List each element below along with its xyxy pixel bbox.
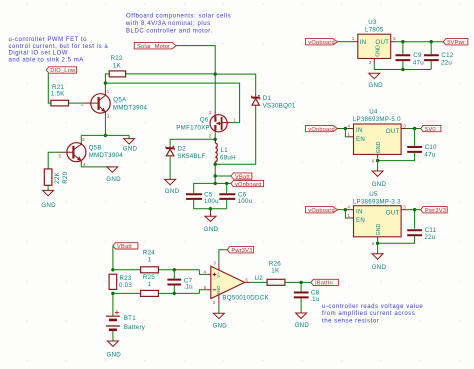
svg-text:1: 1 bbox=[347, 132, 350, 137]
junction U5 EN tie bbox=[344, 208, 347, 211]
wire U5 OUT to Pwr3V3 bbox=[401, 209, 407, 211]
global label Pwr3V3 right bbox=[421, 207, 448, 214]
svg-text:U3: U3 bbox=[368, 19, 377, 26]
wire DIO_Low to R21 bbox=[48, 73, 51, 103]
wire R22 right to solar rail bbox=[126, 73, 215, 75]
svg-text:3: 3 bbox=[209, 110, 212, 115]
wire Pwr3V3 to op-amp V+ bbox=[219, 250, 227, 263]
svg-text:1: 1 bbox=[107, 89, 110, 94]
svg-text:5V0: 5V0 bbox=[425, 127, 436, 133]
wire Solar_Motor to rail bbox=[176, 46, 215, 75]
junction R22-Q5A collector bbox=[104, 81, 107, 84]
svg-text:3: 3 bbox=[82, 137, 85, 142]
wire source node to D2 bbox=[170, 139, 215, 147]
svg-text:SK54BLF: SK54BLF bbox=[177, 153, 205, 160]
svg-text:100u: 100u bbox=[204, 198, 219, 205]
svg-text:Solar_Motor: Solar_Motor bbox=[137, 44, 170, 50]
svg-text:6: 6 bbox=[372, 241, 375, 246]
resistor R26 bbox=[267, 261, 285, 286]
svg-text:GND: GND bbox=[376, 141, 382, 153]
global label Solar_Motor bbox=[134, 42, 176, 49]
wire U3 GND pin bbox=[373, 59, 375, 64]
svg-text:VS30BQ01: VS30BQ01 bbox=[263, 103, 296, 110]
svg-text:C11: C11 bbox=[425, 227, 437, 234]
svg-text:5: 5 bbox=[204, 285, 207, 290]
svg-text:2: 2 bbox=[369, 60, 372, 65]
svg-text:6: 6 bbox=[245, 277, 248, 282]
wire op-amp V- to ground bbox=[218, 304, 220, 313]
svg-text:1: 1 bbox=[352, 36, 355, 41]
ground below R20 bbox=[41, 190, 56, 209]
wire Q5B emitter to ground bbox=[81, 164, 112, 167]
svg-text:GND: GND bbox=[107, 352, 122, 359]
wire rail to Q6 drain bbox=[214, 74, 216, 111]
wire U5 GND to ground bbox=[377, 243, 379, 254]
svg-text:Pwr3V3: Pwr3V3 bbox=[231, 248, 252, 254]
svg-text:R25: R25 bbox=[143, 274, 155, 281]
svg-text:vOnboard: vOnboard bbox=[235, 182, 262, 188]
svg-text:Offboard components: solar ce: Offboard components: solar cells bbox=[126, 14, 231, 20]
transistor Q6 PMF170XP bbox=[176, 110, 236, 139]
svg-text:IN: IN bbox=[360, 39, 367, 46]
global label VBatt bottom bbox=[113, 243, 138, 250]
svg-text:OUT: OUT bbox=[386, 128, 400, 135]
wire to vOnboard label bbox=[215, 182, 231, 184]
svg-text:Digital IO set LOW: Digital IO set LOW bbox=[9, 51, 69, 57]
wire caps to ground bbox=[210, 209, 212, 212]
svg-text:Q5A: Q5A bbox=[113, 97, 127, 104]
wire U4 GND pin bbox=[377, 154, 379, 158]
svg-text:vOnboard: vOnboard bbox=[308, 40, 335, 46]
svg-text:5: 5 bbox=[59, 153, 62, 158]
capacitor C7 bbox=[167, 277, 193, 290]
junction Q5A emitter bbox=[104, 134, 107, 137]
junction cap ground tap bbox=[209, 207, 212, 210]
svg-text:47u: 47u bbox=[413, 59, 424, 66]
svg-text:C12: C12 bbox=[441, 52, 453, 59]
svg-text:BQ50010DDCK: BQ50010DDCK bbox=[222, 295, 269, 302]
svg-text:Q6: Q6 bbox=[200, 117, 209, 124]
capacitor C9 bbox=[396, 52, 425, 66]
svg-text:R20: R20 bbox=[62, 171, 69, 183]
svg-text:U2: U2 bbox=[255, 275, 264, 282]
svg-text:4: 4 bbox=[347, 123, 350, 128]
global label vOnboard U5 input bbox=[306, 207, 338, 214]
svg-text:0.03: 0.03 bbox=[119, 282, 132, 289]
wire op-amp output to R26 bbox=[245, 281, 251, 283]
note text block upper-left bbox=[9, 37, 109, 63]
svg-text:3: 3 bbox=[393, 36, 396, 41]
svg-text:GND: GND bbox=[106, 176, 121, 183]
svg-text:1K: 1K bbox=[113, 62, 122, 69]
svg-text:MMDT3904: MMDT3904 bbox=[113, 105, 148, 112]
ground below U4 bbox=[372, 171, 387, 188]
wire U5 EN tie bbox=[345, 210, 348, 218]
svg-text:4: 4 bbox=[83, 162, 86, 167]
svg-text:3: 3 bbox=[403, 123, 406, 128]
global label VBatt bbox=[231, 173, 252, 180]
svg-text:GND: GND bbox=[295, 322, 310, 329]
resistor R21 bbox=[51, 84, 69, 106]
wire vOnboard to U3 IN bbox=[337, 41, 352, 43]
wire vOnboard to U4 IN bbox=[337, 128, 348, 130]
wire C11 bottom to U5 GND bbox=[378, 236, 415, 244]
wire Q6 source to junction bbox=[214, 132, 216, 139]
wire C8 bottom to ground bbox=[300, 298, 302, 313]
wire D1 to VBatt rail bbox=[215, 105, 256, 164]
svg-text:the sense resistor: the sense resistor bbox=[322, 319, 379, 325]
junction U4 GND bbox=[376, 159, 379, 162]
svg-text:R24: R24 bbox=[143, 250, 155, 257]
transistor Q5A MMDT3904 bbox=[81, 89, 148, 119]
wire Q5A emitter to junction bbox=[104, 116, 106, 136]
svg-text:LP38693MP-3.3: LP38693MP-3.3 bbox=[353, 198, 401, 205]
ground below U5 bbox=[372, 254, 387, 271]
svg-text:GND: GND bbox=[213, 322, 228, 329]
global label vOnboard U4 input bbox=[306, 125, 338, 132]
wire U5 GND pin bbox=[377, 237, 379, 241]
wire C5 bottom bbox=[194, 200, 227, 209]
svg-text:vOnboard: vOnboard bbox=[308, 208, 335, 214]
svg-text:GND: GND bbox=[216, 286, 221, 296]
svg-text:GND: GND bbox=[372, 181, 387, 188]
svg-text:22K: 22K bbox=[54, 171, 61, 183]
wire R22 left to gate-drive junction bbox=[105, 74, 109, 83]
global label vOnboard U3 input bbox=[306, 39, 338, 46]
op-amp U2 BQ50010DDCK bbox=[204, 260, 270, 305]
svg-text:22u: 22u bbox=[424, 234, 435, 241]
wire C11 top stub bbox=[414, 210, 416, 229]
ground at Q5B emitter bbox=[106, 167, 121, 183]
global label DIO_Low bbox=[46, 67, 76, 74]
regulator U3 L7805 bbox=[352, 19, 396, 65]
junction C7 bottom bbox=[173, 292, 176, 295]
svg-text:6: 6 bbox=[372, 159, 375, 164]
svg-text:1: 1 bbox=[234, 118, 237, 123]
svg-text:1: 1 bbox=[148, 257, 152, 264]
svg-text:u-controller reads voltage val: u-controller reads voltage value bbox=[322, 304, 423, 310]
wire rail to D1 bbox=[215, 74, 256, 97]
wire vOnboard to U5 IN bbox=[337, 209, 348, 211]
junction C8 top bbox=[299, 281, 302, 284]
svg-text:1K: 1K bbox=[271, 268, 280, 275]
resistor R23 bbox=[109, 274, 132, 289]
svg-text:MMDT3904: MMDT3904 bbox=[89, 152, 124, 159]
svg-text:GND: GND bbox=[372, 264, 387, 271]
ground below battery bbox=[107, 341, 122, 359]
wire VBatt rail vertical bbox=[214, 164, 216, 183]
ground at Q5A emitter bbox=[123, 135, 138, 152]
wire emitter junction rail bbox=[81, 134, 129, 136]
ground below D2 bbox=[165, 179, 180, 195]
svg-text:and able to sink 2.5 mA: and able to sink 2.5 mA bbox=[9, 57, 84, 63]
wire C6 top bbox=[226, 183, 228, 193]
ground below C8 bbox=[295, 313, 310, 329]
wire C9 top stub bbox=[402, 42, 404, 55]
svg-text:Q5B: Q5B bbox=[89, 144, 102, 151]
svg-text:EN: EN bbox=[356, 136, 365, 143]
svg-text:5VPwr: 5VPwr bbox=[447, 40, 465, 46]
global label vOnboard mid bbox=[231, 180, 264, 187]
svg-text:R22: R22 bbox=[111, 55, 123, 62]
junction C9 bottom bbox=[401, 68, 404, 71]
junction C10 top bbox=[413, 127, 416, 130]
wire U3 ground bus bbox=[374, 63, 431, 70]
svg-text:GND: GND bbox=[41, 202, 56, 209]
svg-text:PMF170XP: PMF170XP bbox=[176, 124, 210, 131]
svg-text:U5: U5 bbox=[369, 191, 378, 198]
wire to C5 bbox=[194, 183, 216, 193]
wire U4 OUT to 5V0 bbox=[401, 128, 407, 130]
svg-text:GND: GND bbox=[368, 82, 383, 89]
wire Q5A collector bbox=[104, 83, 106, 89]
wire C12 top stub bbox=[430, 42, 432, 55]
svg-text:BT1: BT1 bbox=[124, 315, 136, 322]
svg-text:DIO_Low: DIO_Low bbox=[50, 68, 76, 74]
global label Pwr3V3 op-amp bbox=[227, 247, 253, 254]
resistor R20 bbox=[44, 169, 69, 185]
diode D1 VS30BQ01 bbox=[252, 95, 296, 110]
wire jog to op-amp minus input bbox=[199, 290, 207, 294]
svg-text:100u: 100u bbox=[238, 198, 253, 205]
svg-text:with 8.4V/3A nominal; plus: with 8.4V/3A nominal; plus bbox=[125, 21, 211, 27]
global label IBattIn bbox=[311, 279, 339, 286]
wire R26 to IBattIn bbox=[285, 281, 311, 283]
battery BT1 bbox=[106, 311, 146, 332]
svg-text:3: 3 bbox=[213, 260, 216, 265]
note text block bottom-right bbox=[322, 304, 423, 325]
wire C10 top stub bbox=[414, 129, 416, 147]
wire C8 top stub bbox=[300, 282, 302, 291]
svg-text:68uH: 68uH bbox=[220, 154, 236, 161]
svg-text:R26: R26 bbox=[269, 261, 281, 268]
wire R23 to battery bbox=[112, 293, 114, 314]
svg-text:D1: D1 bbox=[263, 95, 272, 102]
capacitor C11 bbox=[407, 227, 436, 241]
capacitor C6 bbox=[219, 191, 252, 205]
junction R23 bottom bbox=[111, 292, 114, 295]
svg-text:IBattIn: IBattIn bbox=[315, 281, 333, 287]
global label 5VPwr bbox=[443, 39, 468, 46]
wire VBatt label down bbox=[112, 246, 114, 270]
svg-text:L1: L1 bbox=[221, 147, 229, 154]
svg-text:Pwr3V3: Pwr3V3 bbox=[425, 208, 446, 214]
wire C7 top stub bbox=[173, 270, 175, 279]
svg-text:.1u: .1u bbox=[310, 296, 320, 303]
resistor R25 bbox=[141, 274, 159, 297]
svg-text:Battery: Battery bbox=[124, 324, 146, 331]
junction vOnboard tap bbox=[214, 182, 217, 185]
junction R23 top bbox=[111, 268, 114, 271]
junction C7 top bbox=[173, 268, 176, 271]
svg-text:2: 2 bbox=[81, 101, 84, 106]
svg-text:OUT: OUT bbox=[375, 39, 389, 46]
svg-text:u-controller PWM FET to: u-controller PWM FET to bbox=[9, 37, 88, 43]
svg-text:D2: D2 bbox=[178, 146, 187, 153]
wire gate drive run to Q6 gate bbox=[105, 83, 239, 123]
svg-text:GND: GND bbox=[165, 188, 180, 195]
svg-text:2: 2 bbox=[209, 134, 212, 139]
capacitor C10 bbox=[407, 144, 437, 158]
wire to VBatt label bbox=[215, 175, 231, 177]
svg-text:1: 1 bbox=[347, 213, 350, 218]
wire C6 bottom bbox=[226, 200, 228, 209]
wire D2 to ground bbox=[169, 156, 171, 180]
svg-text:R23: R23 bbox=[120, 275, 132, 282]
svg-text:47u: 47u bbox=[424, 151, 435, 158]
svg-text:2: 2 bbox=[213, 300, 216, 305]
wire U3 OUT to 5VPwr bbox=[391, 41, 397, 43]
svg-text:22u: 22u bbox=[441, 59, 452, 66]
capacitor C8 bbox=[294, 290, 320, 303]
svg-text:C10: C10 bbox=[425, 144, 437, 151]
capacitor C12 bbox=[424, 52, 454, 66]
diode D2 SK54BLF bbox=[166, 146, 206, 161]
junction U4 EN tie bbox=[344, 127, 347, 130]
wire jog to op-amp plus input bbox=[199, 270, 207, 275]
svg-text:U4: U4 bbox=[369, 109, 378, 116]
svg-text:control current, but for test: control current, but for test is a bbox=[9, 44, 109, 50]
wire C10 bottom to U4 GND bbox=[378, 153, 415, 161]
svg-text:IN: IN bbox=[356, 208, 363, 215]
capacitor C5 bbox=[186, 191, 219, 205]
regulator U4 LP38693MP-5.0 bbox=[347, 109, 406, 164]
svg-text:vOnboard: vOnboard bbox=[308, 127, 335, 133]
regulator U5 LP38693MP-3.3 bbox=[347, 191, 406, 246]
wire U4 GND to ground bbox=[377, 161, 379, 171]
junction VBatt tap bbox=[214, 174, 217, 177]
junction C12 top bbox=[430, 40, 433, 43]
wire R20 to ground bbox=[47, 185, 49, 190]
svg-text:GND: GND bbox=[376, 223, 382, 235]
svg-text:1.5K: 1.5K bbox=[51, 91, 65, 98]
svg-text:4: 4 bbox=[204, 269, 207, 274]
ground below op-amp bbox=[213, 313, 228, 329]
ground below U3 bbox=[368, 73, 383, 89]
svg-text:GND: GND bbox=[123, 146, 138, 153]
note text block top-middle bbox=[125, 14, 231, 35]
global label 5V0 bbox=[421, 125, 441, 132]
svg-text:.1u: .1u bbox=[184, 283, 194, 290]
svg-text:1: 1 bbox=[148, 281, 152, 288]
wire Q5B base to R20 bbox=[48, 152, 60, 169]
wire bottom sense rail bbox=[113, 292, 199, 294]
svg-text:IN: IN bbox=[356, 127, 363, 134]
svg-text:LP38693MP-5.0: LP38693MP-5.0 bbox=[353, 116, 401, 123]
wire C12 bottom bbox=[430, 61, 432, 69]
svg-text:from amplified current across: from amplified current across bbox=[322, 311, 415, 317]
svg-text:3: 3 bbox=[107, 114, 110, 119]
svg-text:OUT: OUT bbox=[386, 209, 400, 216]
svg-text:GND: GND bbox=[204, 226, 219, 233]
resistor R22 bbox=[109, 55, 125, 77]
junction L1 bottom bbox=[214, 163, 217, 166]
svg-text:C9: C9 bbox=[413, 52, 422, 59]
inductor L1 bbox=[215, 139, 235, 164]
wire C9 bottom bbox=[402, 61, 404, 69]
junction U5 GND bbox=[376, 242, 379, 245]
wire C7 bottom stub bbox=[173, 286, 175, 294]
svg-text:GND: GND bbox=[375, 45, 381, 57]
svg-text:VBatt: VBatt bbox=[235, 174, 250, 180]
wire junction down to Q5B collector bbox=[80, 135, 82, 142]
svg-text:L7805: L7805 bbox=[365, 27, 384, 34]
junction C11 top bbox=[413, 208, 416, 211]
svg-text:VBatt: VBatt bbox=[117, 244, 132, 250]
junction Q6 source node bbox=[214, 138, 217, 141]
transistor Q5B MMDT3904 bbox=[59, 137, 124, 167]
junction solar rail bbox=[214, 72, 217, 75]
svg-text:EN: EN bbox=[356, 217, 365, 224]
svg-text:V+: V+ bbox=[216, 272, 221, 278]
svg-text:4: 4 bbox=[347, 205, 350, 210]
junction C9 top bbox=[401, 40, 404, 43]
wire R21 to Q5A base bbox=[69, 102, 85, 104]
svg-text:BLDC controller and motor.: BLDC controller and motor. bbox=[126, 28, 213, 34]
ground below C5 C6 bbox=[204, 216, 219, 233]
wire top sense rail bbox=[113, 269, 199, 271]
wire battery to ground bbox=[112, 331, 114, 341]
wire U4 EN tie bbox=[345, 129, 348, 137]
resistor R24 bbox=[141, 250, 159, 273]
svg-text:3: 3 bbox=[403, 205, 406, 210]
junction C6 tap bbox=[225, 182, 228, 185]
